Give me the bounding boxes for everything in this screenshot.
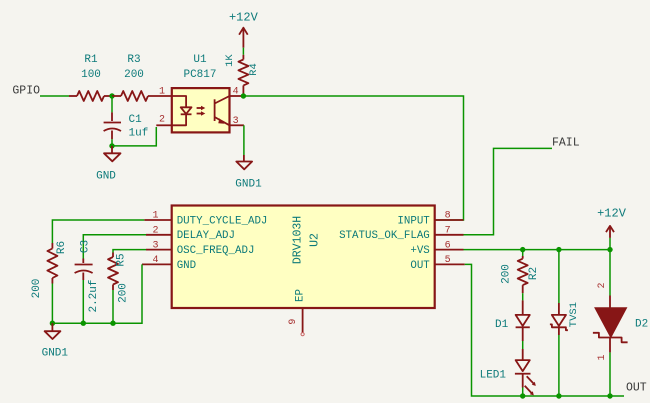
U2 pin 4 GND [142,255,196,272]
svg-text:1: 1 [159,87,165,98]
svg-text:1K: 1K [224,54,236,67]
svg-text:200: 200 [124,69,144,81]
svg-text:GPIO: GPIO [12,85,40,98]
svg-text:GND1: GND1 [235,179,262,191]
U2 pin 1 DUTY_CYCLE_ADJ [144,211,267,228]
svg-text:+12V: +12V [229,11,259,25]
junction bottom/D2 [607,393,612,398]
U1 pin number 1 [159,87,165,98]
wire opto pin3 down [243,125,245,155]
junction +VS/R2 [520,247,525,252]
wire R5 to gnd row [112,290,114,323]
resistor R3 [112,54,172,101]
wire +VS to R2 [522,250,524,256]
svg-text:DELAY_ADJ: DELAY_ADJ [177,230,235,242]
wire pin4 GND down and left [52,264,142,323]
wire main to INPUT [243,96,463,220]
capacitor C3 [75,240,100,313]
junction +VS/D2 [607,247,612,252]
ground GND1 bottom left [42,323,69,359]
junction +VS/TVS1 [556,247,561,252]
resistor R6 [31,241,68,299]
svg-text:4: 4 [152,255,158,266]
svg-text:R5: R5 [116,253,128,266]
svg-text:U1: U1 [193,54,207,66]
svg-text:LED1: LED1 [480,370,507,382]
wire R6 to gnd row [51,284,53,324]
junction at R1/R3/C1 [109,93,114,98]
svg-text:5: 5 [445,255,451,266]
wire R2 to D1 [522,293,524,300]
node GPIO label [12,85,40,98]
svg-text:200: 200 [501,264,513,284]
junction bottom/LED1 [520,393,525,398]
diode D1 [495,300,530,341]
svg-text:R4: R4 [248,63,260,76]
power +12V right [597,207,627,238]
svg-text:R3: R3 [127,54,140,66]
diode D2 TVS [593,282,648,360]
svg-text:R6: R6 [56,241,68,254]
svg-text:GND: GND [177,260,196,272]
svg-text:2: 2 [152,225,158,236]
wire pin1 to R6 [52,220,144,243]
U1 phototransistor [215,96,230,125]
svg-text:1: 1 [597,354,608,360]
capacitor C1 [104,112,149,139]
U2 pin 9 EP [288,289,307,336]
wire +VS row [464,249,611,251]
svg-text:OSC_FREQ_ADJ: OSC_FREQ_ADJ [177,245,255,257]
U1 pin number 3 [233,116,239,127]
svg-text:2: 2 [597,282,608,288]
wire pin3 to R5 [113,250,146,253]
svg-text:1: 1 [152,211,158,222]
node FAIL label [552,137,580,150]
junction bottom/TVS1 [556,393,561,398]
U2 pin 3 OSC_FREQ_ADJ [146,240,254,257]
resistor R2 [501,256,541,293]
wire +12V to R4 [242,48,244,55]
wire LED1 to bottom row [522,388,524,397]
junction opto pin4 / R4 [241,93,246,98]
wire D2 to bottom row [609,352,611,396]
ground GND1 under opto [235,155,262,191]
U2 pin 6 +VS [410,240,463,257]
svg-text:8: 8 [445,211,451,222]
svg-text:6: 6 [445,240,451,251]
U1 pin number 4 [233,87,239,98]
svg-text:GND1: GND1 [42,348,69,360]
junction gnd row C3 [81,321,86,326]
resistor R5 [108,253,130,303]
svg-text:2: 2 [159,115,165,126]
wire +VS to TVS1 [558,250,560,303]
svg-text:OUT: OUT [626,382,647,395]
wire +12V right to row [609,238,611,250]
U1 pin2 stub [156,124,172,126]
svg-text:3: 3 [152,240,158,251]
wire +VS to D2 [609,250,611,296]
wire TVS1 to bottom row [558,335,560,396]
TVS diode TVS1 [550,302,580,335]
wire opto pin2 path [112,127,156,146]
node OUT label [626,382,647,395]
U1 light arrows [197,106,206,116]
wire pin2 to C3 [83,235,146,259]
U1 pin number 2 [159,115,165,126]
svg-text:EP: EP [295,289,307,302]
svg-text:D1: D1 [495,319,509,331]
svg-text:7: 7 [445,225,451,236]
svg-text:PC817: PC817 [183,69,216,81]
ground GND [96,146,120,183]
svg-text:FAIL: FAIL [552,137,580,150]
svg-text:U2: U2 [309,233,322,247]
junction C1/GND/opto pin2 [109,143,114,148]
svg-text:OUT: OUT [410,260,430,272]
junction gnd row R6 [50,321,55,326]
U1 pin4 stub [230,95,244,97]
U2 pin 5 OUT [410,255,464,272]
svg-text:C1: C1 [129,114,143,126]
svg-text:200: 200 [118,283,130,303]
svg-text:R1: R1 [84,54,98,66]
svg-text:100: 100 [81,69,101,81]
svg-text:TVS1: TVS1 [568,302,580,327]
svg-text:R2: R2 [528,267,540,280]
svg-text:C3: C3 [80,240,92,253]
svg-text:+VS: +VS [410,245,429,257]
junction gnd row R5 [110,321,115,326]
svg-text:D2: D2 [635,319,648,331]
svg-text:DUTY_CYCLE_ADJ: DUTY_CYCLE_ADJ [177,215,268,227]
svg-text:STATUS_OK_FLAG: STATUS_OK_FLAG [339,230,430,242]
U2 pin 7 STATUS_OK_FLAG [339,225,463,242]
svg-text:INPUT: INPUT [397,215,430,227]
U1 internal LED [172,96,192,125]
U1 pin3 stub [230,124,244,126]
wire C1 to gnd junction [111,139,113,146]
resistor R4 [224,54,260,96]
svg-text:2.2uf: 2.2uf [88,279,100,312]
wire C3 to gnd row [82,280,84,323]
wire pin5 to bottom row [465,264,624,396]
wire pin7 to FAIL [464,148,553,234]
LED LED1 [480,349,536,395]
wire GPIO to R1 [40,95,69,97]
wire D1 to LED1 [522,341,524,349]
power +12V top [229,11,259,48]
resistor R1 [69,54,112,101]
svg-text:GND: GND [96,171,116,183]
svg-text:9: 9 [288,319,299,325]
op-amp U1 optocoupler PC817 body [172,54,230,132]
IC U2 DRV103H body [172,206,435,309]
svg-text:200: 200 [31,279,43,299]
svg-text:1uf: 1uf [129,128,149,140]
svg-text:+12V: +12V [597,207,627,221]
svg-text:DRV103H: DRV103H [292,216,305,264]
U2 pin 8 INPUT [397,211,463,228]
U2 pin 2 DELAY_ADJ [146,225,235,242]
wire junction to C1 [111,96,113,112]
